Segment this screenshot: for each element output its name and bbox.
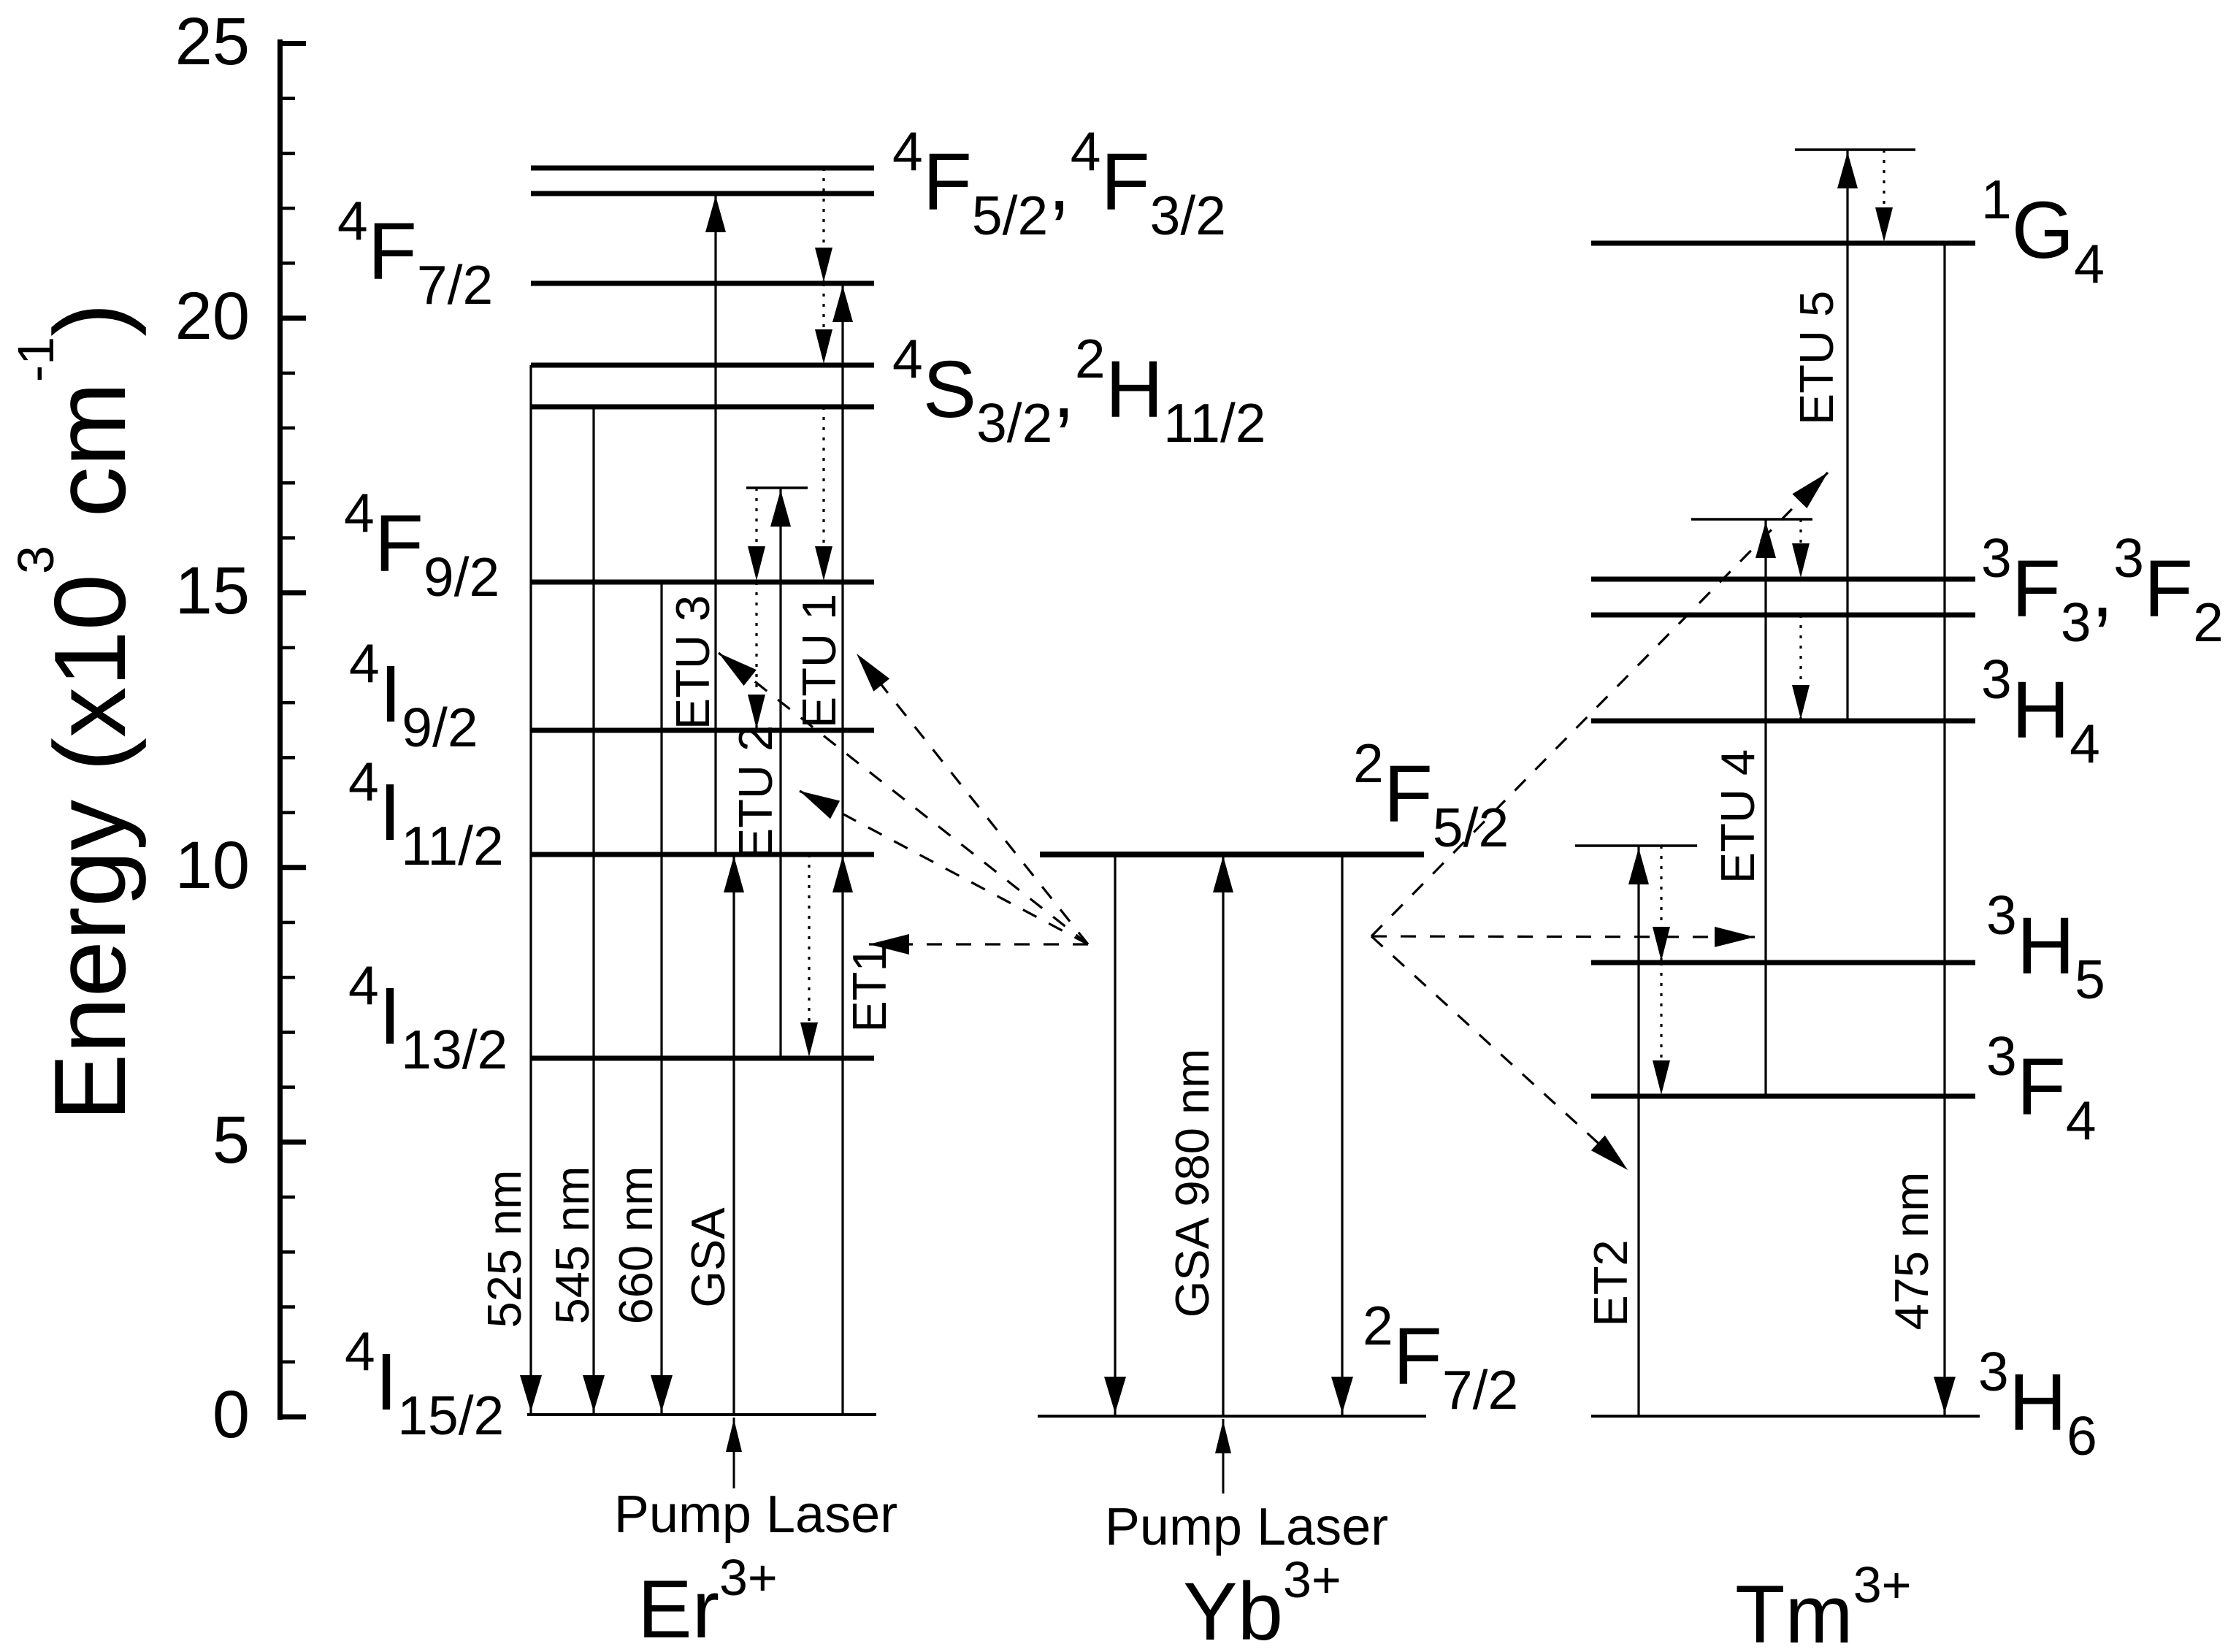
- dashed ET arrow Yb->Er ET1: [869, 943, 1088, 945]
- svg-text:ETU 2: ETU 2: [729, 725, 782, 860]
- Er level 4I9/2: [531, 728, 874, 733]
- Er ET1 arrow: [841, 854, 843, 1415]
- Tm dotted relaxation 3F2->3H4: [1799, 615, 1802, 721]
- svg-text:GSA: GSA: [681, 1207, 735, 1308]
- Er dotted relaxation 4F7/2->2H11/2: [822, 283, 824, 365]
- Tm level 3H4: [1591, 719, 1975, 724]
- svg-text:525 nm: 525 nm: [478, 1170, 531, 1328]
- Yb GSA 980 nm arrow: [1222, 854, 1224, 1416]
- Tm level 3F3: [1591, 577, 1975, 582]
- Tm level 1G4: [1591, 241, 1975, 246]
- Er 525 nm emission arrow: [529, 365, 532, 1415]
- Er GSA arrow: [732, 854, 735, 1415]
- Tm 475 nm emission arrow: [1943, 243, 1945, 1416]
- Er level 4S3/2: [531, 405, 874, 410]
- Er ground level 4I15/2: [527, 1413, 876, 1416]
- Tm dotted relaxation low->3H5: [1660, 846, 1662, 963]
- Tm level 3H5: [1591, 960, 1975, 965]
- Er dotted relaxation virtual->4F9/2: [755, 488, 757, 582]
- Yb emission arrow left: [1114, 854, 1116, 1416]
- Er level 4F5/2: [531, 191, 874, 196]
- Er level 4F9/2: [531, 580, 874, 585]
- Yb level 2F5/2: [1040, 852, 1424, 857]
- Tm ETU4 arrow: [1764, 519, 1766, 1096]
- y-axis spine: [277, 39, 283, 1420]
- svg-text:15: 15: [175, 554, 250, 628]
- Er level 4I13/2: [531, 1056, 874, 1061]
- svg-text:Pump Laser: Pump Laser: [614, 1485, 897, 1544]
- Yb pump laser arrow: [1222, 1419, 1225, 1494]
- svg-text:10: 10: [175, 828, 250, 903]
- Er level 4F7/2: [531, 281, 874, 286]
- svg-text:25: 25: [175, 4, 250, 79]
- svg-text:ETU 4: ETU 4: [1711, 749, 1764, 884]
- Er dotted relaxation 4S3/2->4F9/2: [822, 407, 824, 582]
- Tm ETU5 arrow: [1846, 150, 1848, 721]
- Tm level 3F2: [1591, 613, 1975, 618]
- Er level 4F3/2: [531, 166, 874, 171]
- svg-text:ETU 1: ETU 1: [792, 594, 846, 728]
- svg-text:ETU 3: ETU 3: [666, 595, 719, 730]
- svg-text:5: 5: [213, 1103, 250, 1177]
- Tm virtual level low: [1575, 844, 1697, 847]
- svg-text:0: 0: [213, 1377, 250, 1452]
- Er virtual level (ETU2 top): [746, 486, 808, 489]
- svg-text:ET2: ET2: [1584, 1239, 1637, 1326]
- dashed ET arrow Yb->Tm ETU5: [1371, 473, 1828, 936]
- Yb ground level 2F7/2: [1038, 1415, 1426, 1418]
- Tm virtual level top: [1795, 148, 1915, 151]
- Tm ET2 arrow: [1637, 846, 1639, 1416]
- svg-text:545 nm: 545 nm: [545, 1166, 599, 1325]
- Tm level 3F4: [1591, 1094, 1975, 1099]
- dashed ET arrow Yb->Er ETU2: [800, 791, 1088, 944]
- Tm ground level 3H6: [1591, 1415, 1980, 1418]
- Tm dotted relaxation 3H5->3F4: [1660, 963, 1662, 1096]
- Er ETU2 arrow: [779, 488, 781, 1058]
- Tm virtual level mid: [1691, 518, 1812, 521]
- Er 660 nm emission arrow: [660, 582, 662, 1415]
- svg-text:GSA 980 nm: GSA 980 nm: [1165, 1049, 1219, 1318]
- dashed ET arrow Yb->Tm ET2: [1371, 936, 1628, 1170]
- Er dotted relaxation 4I11/2->4I13/2: [808, 854, 810, 1058]
- Tm dotted relaxation top->1G4: [1883, 150, 1885, 243]
- Er ETU1 arrow: [841, 283, 843, 854]
- Er level 4I11/2: [531, 852, 874, 857]
- Tm dotted relaxation mid->3F3: [1799, 519, 1802, 579]
- Er pump laser arrow: [733, 1418, 735, 1488]
- Er level 2H11/2: [531, 363, 874, 368]
- dashed ET arrow Yb->Er ETU1: [857, 654, 1088, 944]
- Er dotted relaxation 4F9/2->4I9/2: [755, 582, 757, 730]
- Er 545 nm emission arrow: [592, 407, 594, 1415]
- dashed ET arrow Yb->Er ETU3: [719, 653, 1088, 944]
- svg-text:ETU 5: ETU 5: [1790, 291, 1843, 425]
- svg-text:ET1: ET1: [843, 945, 896, 1032]
- Er ESA arrow to 4F5/2: [714, 194, 716, 854]
- Yb emission arrow right: [1341, 854, 1343, 1416]
- y-axis ticks: [280, 1415, 307, 1420]
- dashed ET arrow Yb->Tm ETU4: [1371, 936, 1755, 937]
- svg-text:475 nm: 475 nm: [1885, 1172, 1938, 1331]
- svg-text:660 nm: 660 nm: [609, 1166, 662, 1325]
- Er dotted relaxation 4F3/2->4F7/2: [822, 168, 824, 283]
- svg-text:Pump Laser: Pump Laser: [1105, 1498, 1388, 1556]
- svg-text:20: 20: [175, 279, 250, 353]
